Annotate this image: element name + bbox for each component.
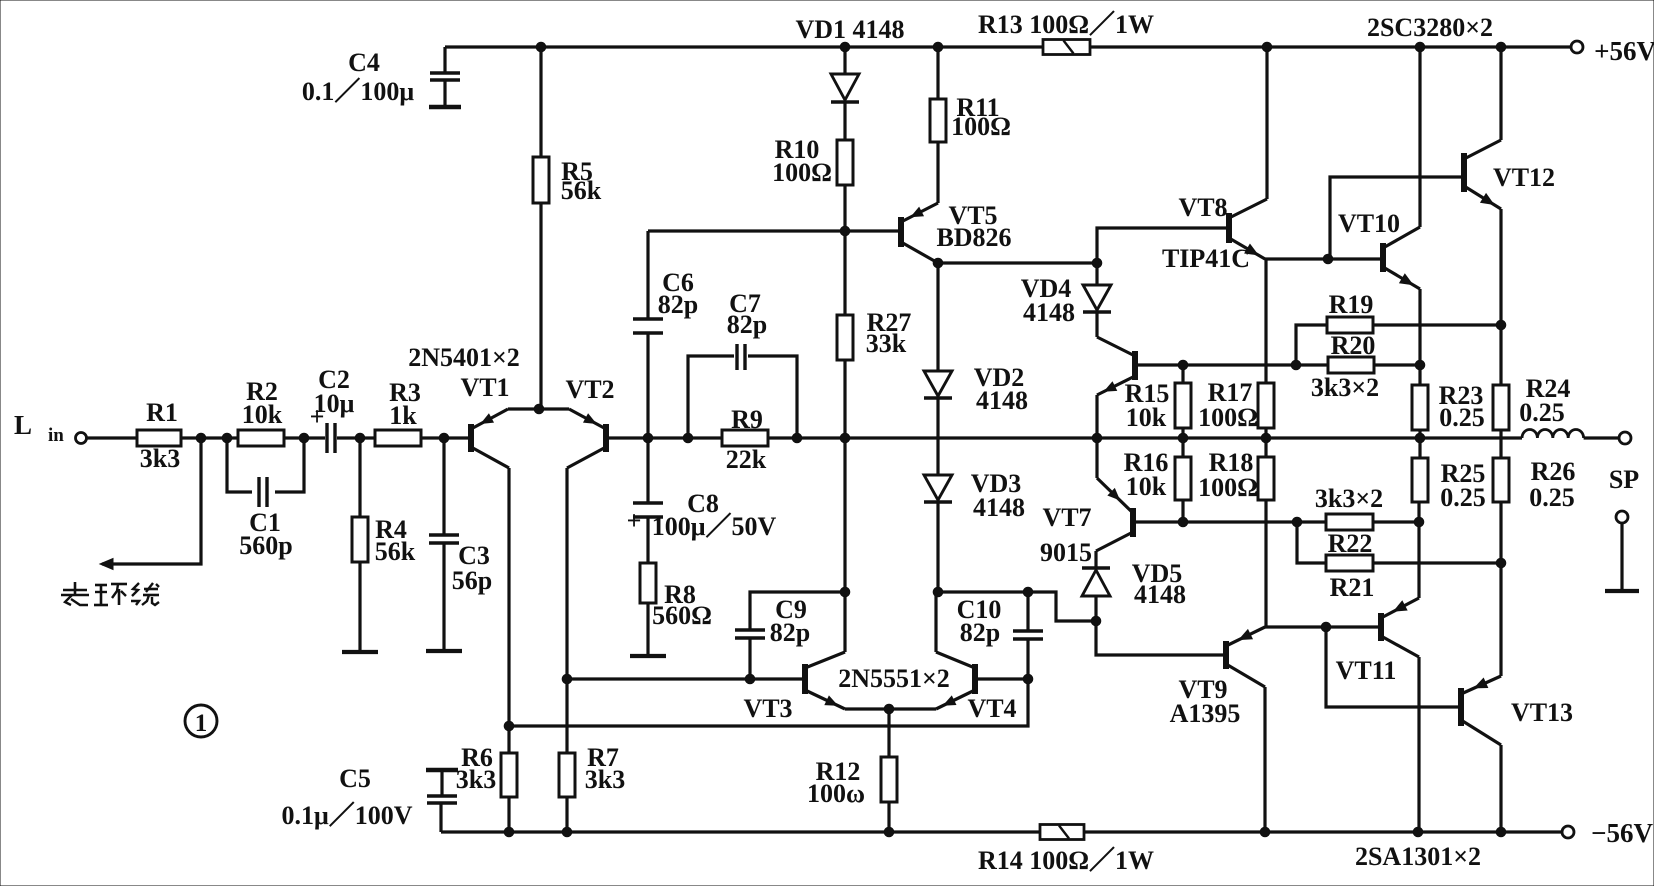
wire VT10 emitter down (1418, 289, 1421, 385)
transistor VT2 (567, 409, 606, 468)
node top rail junction at VT10 collector (1415, 42, 1425, 52)
svg-text:4148: 4148 (1023, 298, 1075, 327)
wire R2 to C2 (284, 436, 325, 439)
node bottom rail junction at VT9 collector (1260, 827, 1270, 837)
svg-text:33k: 33k (866, 329, 907, 358)
svg-text:560Ω: 560Ω (652, 601, 712, 630)
svg-text:10k: 10k (1126, 472, 1167, 501)
label VT1 (460, 373, 509, 402)
resistor R14 (978, 825, 1154, 876)
svg-text:0.25: 0.25 (1440, 483, 1486, 512)
svg-text:R20: R20 (1331, 331, 1376, 360)
terminal +56V (1571, 36, 1654, 66)
capacitor C5 (281, 764, 458, 832)
capacitor C1 (227, 433, 309, 560)
svg-text:C5: C5 (339, 764, 371, 793)
wire VT1 collector down (507, 468, 510, 753)
svg-text:100Ω: 100Ω (1198, 403, 1258, 432)
wire VT8 emitter down to R17 (1264, 259, 1267, 383)
transistor VT9 (1170, 627, 1265, 728)
transistor VT4 (936, 652, 1017, 723)
svg-text:0.1μ／100V: 0.1μ／100V (281, 801, 412, 830)
resistor R8 (640, 563, 712, 655)
capacitor C3 (429, 438, 492, 650)
resistor R22 (1315, 484, 1420, 558)
svg-text:VT12: VT12 (1493, 163, 1555, 192)
resistor R5 (533, 47, 602, 409)
resistor R11 (930, 47, 1011, 203)
wire VT7 emitter to main line (1095, 438, 1098, 478)
wire VT12 collector to rail (1499, 47, 1502, 140)
diode VD5 (1082, 551, 1186, 621)
node VT6 VT7 emitter junction (1092, 433, 1102, 443)
wire VT12 emitter down (1499, 209, 1502, 385)
resistor R27 (837, 231, 911, 438)
svg-text:−56V: −56V (1591, 818, 1653, 848)
node R21 R22 bracket junction (1292, 517, 1302, 527)
diode VD2 (924, 263, 1028, 415)
wire VT8 base node up-right (1097, 228, 1227, 263)
svg-text:VD1 4148: VD1 4148 (795, 15, 904, 44)
svg-text:TIP41C: TIP41C (1162, 244, 1250, 273)
node emitter tail VT3 VT4 (884, 704, 894, 714)
capacitor C8 (627, 438, 777, 563)
svg-text:3k3×2: 3k3×2 (1311, 373, 1379, 402)
node R19 right junction (1496, 320, 1506, 330)
svg-text:0.25: 0.25 (1439, 403, 1485, 432)
svg-text:4148: 4148 (1134, 580, 1186, 609)
node emitter tail junction (534, 404, 544, 414)
wire VT13 emitter up (1499, 502, 1502, 676)
wire VT4 base (977, 677, 1028, 680)
svg-text:R9: R9 (731, 405, 763, 434)
svg-text:10k: 10k (1126, 403, 1167, 432)
svg-text:82p: 82p (658, 290, 698, 319)
svg-text:C4: C4 (348, 48, 380, 77)
svg-text:2N5401×2: 2N5401×2 (408, 343, 520, 372)
transistor VT3 (743, 652, 845, 723)
resistor R15 (1125, 365, 1191, 438)
capacitor C4 (302, 47, 461, 107)
svg-text:56p: 56p (452, 566, 492, 595)
wire +56V top supply rail (445, 45, 1571, 48)
transistor VT13 (1461, 676, 1573, 745)
svg-text:9015: 9015 (1040, 538, 1092, 567)
wire VT4 collector up (934, 592, 937, 652)
wire VT11 emitter up (1417, 502, 1420, 598)
resistor R18 (1198, 438, 1274, 627)
node R4 junction (355, 433, 365, 443)
label circled 1 figure number (185, 705, 217, 737)
node R23 R25 main junction (1415, 433, 1425, 443)
resistor R13 (978, 10, 1154, 55)
wire VT8 emitter right (1265, 257, 1381, 260)
node VT11 base branch (1321, 622, 1331, 632)
terminal SP return (1616, 511, 1628, 590)
node R20 right junction (1415, 360, 1425, 370)
resistor R20 (1311, 331, 1420, 402)
wire R1 to R2 (181, 436, 238, 439)
wire to surround branch (102, 438, 201, 564)
wire VT12 base branch (1330, 177, 1462, 259)
wire VT9 emitter line right (1265, 625, 1379, 628)
node R27 main line junction (840, 433, 850, 443)
node C9 bracket top junction (840, 587, 850, 597)
svg-text:82p: 82p (960, 618, 1000, 647)
node bottom rail junction at R6 (504, 827, 514, 837)
wire VT5 collector to VT8 base node (938, 261, 1099, 264)
svg-text:3k3: 3k3 (585, 765, 625, 794)
transistor VT7 (1040, 478, 1133, 567)
svg-text:0.25: 0.25 (1529, 483, 1575, 512)
wire VD5 node to VT9 base (1096, 621, 1225, 655)
svg-text:100Ω: 100Ω (1198, 473, 1258, 502)
resistor R12 (807, 709, 897, 832)
svg-text:1: 1 (195, 710, 208, 737)
svg-text:VT1: VT1 (460, 373, 509, 402)
transistor VT6 (1097, 337, 1135, 395)
node top rail junction at VD1 (840, 42, 850, 52)
svg-text:56k: 56k (561, 176, 602, 205)
node VT12 base branch (1323, 254, 1333, 264)
wire VT11 collector to rail (1417, 657, 1420, 832)
svg-text:R14 100Ω／1W: R14 100Ω／1W (978, 846, 1154, 875)
label 2SC3280x2 (1367, 13, 1493, 42)
svg-text:82p: 82p (770, 618, 810, 647)
node top rail junction at VT8 collector (1262, 42, 1272, 52)
svg-text:1k: 1k (389, 401, 417, 430)
svg-text:22k: 22k (726, 445, 767, 474)
svg-text:3k3×2: 3k3×2 (1315, 484, 1383, 513)
wire R27 node down to C9 node (843, 438, 846, 592)
wire input to R1 (87, 436, 138, 439)
svg-text:4148: 4148 (976, 386, 1028, 415)
svg-text:BD826: BD826 (936, 223, 1011, 252)
node VT5 collector junction (933, 258, 943, 268)
node bottom rail junction at R12 (884, 827, 894, 837)
capacitor C9 (735, 592, 845, 679)
node R21 right junction (1496, 558, 1506, 568)
svg-text:VT7: VT7 (1042, 503, 1091, 532)
arrow to surround (100, 559, 113, 570)
transistor VT5 (901, 201, 1012, 263)
svg-text:in: in (48, 425, 64, 446)
wire VT1 VT2 emitter join (508, 407, 569, 410)
node top rail junction at R11 (933, 42, 943, 52)
node VT5 base junction (840, 226, 850, 236)
node VD5 bottom junction (1091, 616, 1101, 626)
node R16 bottom junction (1178, 517, 1188, 527)
wire VT6 base bias line (1135, 363, 1328, 366)
node R17 R18 main junction (1261, 433, 1271, 443)
svg-text:A1395: A1395 (1170, 699, 1241, 728)
transistor VT11 (1336, 598, 1419, 685)
node VT2 collector at VT3 base (562, 674, 572, 684)
svg-text:VT4: VT4 (967, 694, 1016, 723)
wire VT10 collector to rail (1418, 47, 1421, 227)
label qu-huan-rao (to surround) (61, 582, 159, 605)
node C7 bracket left (683, 433, 693, 443)
inductor output coil (1522, 430, 1618, 439)
node R15 R16 main junction (1178, 433, 1188, 443)
svg-text:VT8: VT8 (1178, 193, 1227, 222)
svg-text:VT11: VT11 (1336, 656, 1397, 685)
svg-text:100μ／50V: 100μ／50V (652, 512, 777, 541)
svg-text:R1: R1 (146, 398, 178, 427)
svg-text:+: + (310, 402, 325, 431)
svg-text:560p: 560p (239, 531, 292, 560)
svg-text:R19: R19 (1329, 290, 1374, 319)
resistor R9 (722, 405, 768, 474)
wire VT3 base (567, 677, 803, 680)
terminal L in input (14, 410, 87, 446)
wire C6 to VT5 base (648, 229, 899, 232)
svg-text:2SC3280×2: 2SC3280×2 (1367, 13, 1493, 42)
svg-text:VT3: VT3 (743, 694, 792, 723)
ground below R4 (342, 650, 378, 654)
resistor R26 (1493, 438, 1575, 512)
node bottom rail junction at VT13 collector (1496, 827, 1506, 837)
wire VD2 to VD3 (936, 398, 939, 474)
capacitor C10 (957, 592, 1043, 679)
node bottom rail junction at VT11 collector (1413, 827, 1423, 837)
svg-text:R13 100Ω／1W: R13 100Ω／1W (978, 10, 1154, 39)
resistor R21 (1297, 522, 1501, 602)
svg-text:0.1／100μ: 0.1／100μ (302, 77, 415, 106)
wire -56V bottom supply rail (441, 830, 1562, 833)
node C7 bracket right (792, 433, 802, 443)
transistor VT12 (1464, 140, 1555, 209)
wire VT3 VT4 emitter join (845, 707, 936, 710)
svg-text:VT2: VT2 (565, 375, 614, 404)
transistor VT1 (471, 409, 509, 468)
resistor R19 (1296, 290, 1501, 365)
svg-text:R26: R26 (1531, 457, 1576, 486)
node bottom rail junction at R7 (562, 827, 572, 837)
svg-text:10k: 10k (242, 400, 283, 429)
resistor R24 (1493, 374, 1570, 438)
node input junction to surround branch (196, 433, 206, 443)
node VD3 bottom junction (933, 587, 943, 597)
node VT8 base node (1092, 258, 1102, 268)
svg-text:4148: 4148 (973, 493, 1025, 522)
wire VD3 node to C10 node (938, 590, 1028, 593)
resistor R10 (772, 135, 853, 231)
wire VD5 node to C10 node (1028, 592, 1096, 621)
label 2N5401x2 (408, 343, 520, 372)
terminal SP output (1609, 432, 1639, 494)
node C1 left junction (222, 433, 232, 443)
svg-text:2N5551×2: 2N5551×2 (838, 664, 950, 693)
diode VD1 (795, 15, 904, 140)
resistor R1 (137, 398, 181, 473)
node top rail junction at R5 column (536, 42, 546, 52)
svg-text:3k3: 3k3 (140, 444, 180, 473)
capacitor C7 (688, 289, 797, 438)
node C6 main line junction (643, 433, 653, 443)
node C10 bottom at VT4 base (1023, 674, 1033, 684)
ground SP return (1605, 589, 1639, 593)
diode VD3 (924, 469, 1025, 592)
transistor VT10 (1338, 209, 1420, 289)
svg-text:0.25: 0.25 (1519, 398, 1565, 427)
resistor R3 (375, 378, 421, 446)
svg-text:56k: 56k (375, 537, 416, 566)
node C3 junction (439, 433, 449, 443)
svg-text:3k3: 3k3 (456, 765, 496, 794)
label VT2 (565, 375, 614, 404)
svg-text:100Ω: 100Ω (951, 112, 1011, 141)
node C9 bottom at VT3 base (745, 674, 755, 684)
svg-text:100ω: 100ω (807, 779, 865, 808)
ground below R8 (630, 654, 666, 658)
node R15 top junction (1178, 360, 1188, 370)
node VT1 collector to VT4 base wire (504, 721, 514, 731)
svg-text:82p: 82p (727, 310, 767, 339)
label 2SA1301x2 (1355, 842, 1481, 871)
svg-text:100Ω: 100Ω (772, 158, 832, 187)
node top rail junction at VT12 collector (1496, 42, 1506, 52)
label 2N5551x2 (838, 664, 950, 693)
transistor VT8 (1162, 193, 1267, 273)
wire VT11 VT13 base link (1326, 627, 1459, 707)
svg-text:L: L (14, 410, 32, 440)
wire C2 to R3 (337, 436, 375, 439)
capacitor C2 (310, 365, 355, 453)
ground below C3 (426, 649, 462, 653)
resistor R4 (352, 438, 416, 651)
capacitor C6 (633, 231, 698, 438)
wire VT2 collector down (565, 468, 568, 679)
wire R3 to VT1 base (421, 436, 469, 439)
svg-text:R21: R21 (1330, 573, 1375, 602)
terminal -56V (1562, 818, 1653, 848)
wire VT7 base bias line (1133, 520, 1326, 523)
resistor R2 (238, 377, 284, 446)
resistor R25 (1412, 438, 1486, 512)
wire VT6 emitter to main line (1095, 395, 1098, 438)
wire VT3 collector up (843, 592, 846, 652)
svg-text:SP: SP (1609, 465, 1639, 494)
svg-text:+: + (627, 506, 642, 535)
wire VT4 base cross wire (509, 679, 1028, 726)
svg-text:2SA1301×2: 2SA1301×2 (1355, 842, 1481, 871)
node R19 R20 bracket junction (1291, 360, 1301, 370)
wire main line VT2 to coil (606, 436, 1522, 439)
wire VT9 collector to rail (1263, 687, 1266, 832)
svg-text:+56V: +56V (1594, 36, 1654, 66)
resistor R23 (1412, 381, 1485, 438)
diode VD4 (1021, 263, 1111, 337)
resistor R16 (1124, 438, 1191, 522)
resistor R7 (559, 679, 625, 832)
svg-text:VT13: VT13 (1511, 698, 1573, 727)
resistor R17 (1198, 378, 1274, 438)
node R22 right junction (1414, 517, 1424, 527)
wire VT13 collector to rail (1499, 745, 1502, 832)
resistor R6 (456, 743, 517, 832)
svg-text:VT10: VT10 (1338, 209, 1400, 238)
node C10 top junction (1023, 587, 1033, 597)
wire VT8 collector to rail (1265, 47, 1268, 199)
